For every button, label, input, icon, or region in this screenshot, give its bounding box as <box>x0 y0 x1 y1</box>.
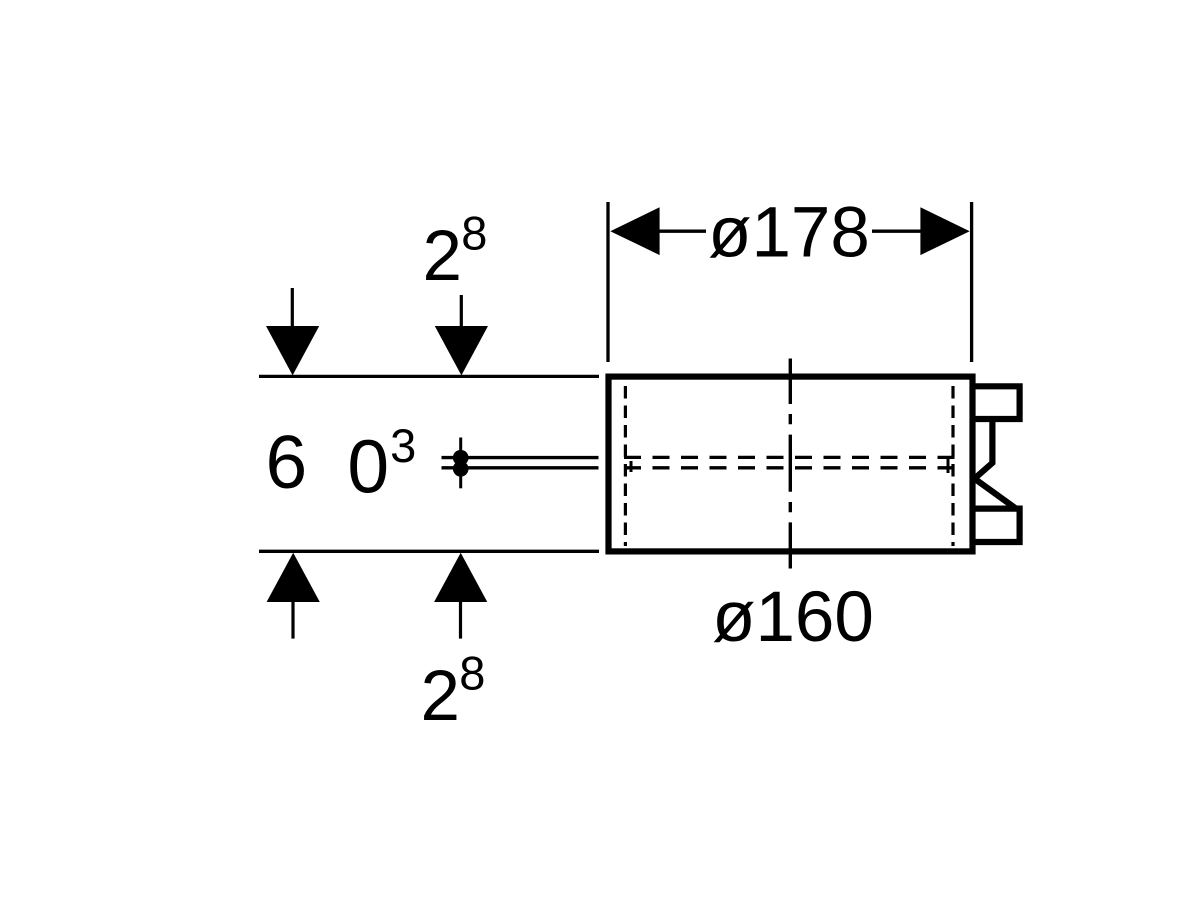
wall arrow top-left stem <box>291 288 294 327</box>
right inner dashed line <box>951 386 954 546</box>
plate leader lower dot <box>453 461 469 477</box>
dimension line left segment <box>658 230 706 233</box>
bore left tick <box>630 461 633 472</box>
svg-text:2: 2 <box>421 657 461 736</box>
svg-text:8: 8 <box>461 207 487 260</box>
seal lip <box>975 419 1017 509</box>
right arrowhead <box>920 207 969 255</box>
svg-text:3: 3 <box>390 419 416 472</box>
body outline <box>609 377 973 552</box>
dimension line right segment <box>872 230 921 233</box>
wall arrow bottom-right head <box>434 553 487 602</box>
wall arrow top-left head <box>266 326 319 375</box>
plate leader upper dot <box>453 450 469 466</box>
svg-text:ø160: ø160 <box>712 578 874 657</box>
right extension line <box>970 202 973 362</box>
wall arrow bottom-right stem <box>459 601 462 639</box>
bore upper dashed line <box>624 456 955 459</box>
svg-text:2: 2 <box>423 217 463 296</box>
wall bottom line <box>259 550 599 553</box>
center line <box>789 359 792 569</box>
wall arrow top-right head <box>435 326 488 375</box>
left inner dashed line <box>624 386 627 546</box>
wall arrow top-right stem <box>460 295 463 327</box>
svg-text:0: 0 <box>347 425 389 509</box>
seal bottom tab <box>973 509 1020 542</box>
wall arrow bottom-left head <box>267 553 320 602</box>
bore right tick <box>947 459 950 474</box>
plate top line <box>442 456 599 459</box>
left extension line <box>606 202 609 362</box>
wall top line <box>259 375 599 378</box>
left arrowhead <box>610 207 659 255</box>
bore lower dashed line <box>624 466 955 469</box>
plate leader line <box>459 438 462 489</box>
svg-text:8: 8 <box>459 647 485 700</box>
plate bottom line <box>442 466 599 469</box>
seal top tab <box>973 386 1020 419</box>
svg-text:ø178: ø178 <box>708 194 870 273</box>
svg-text:6: 6 <box>266 420 308 504</box>
wall arrow bottom-left stem <box>291 601 294 639</box>
